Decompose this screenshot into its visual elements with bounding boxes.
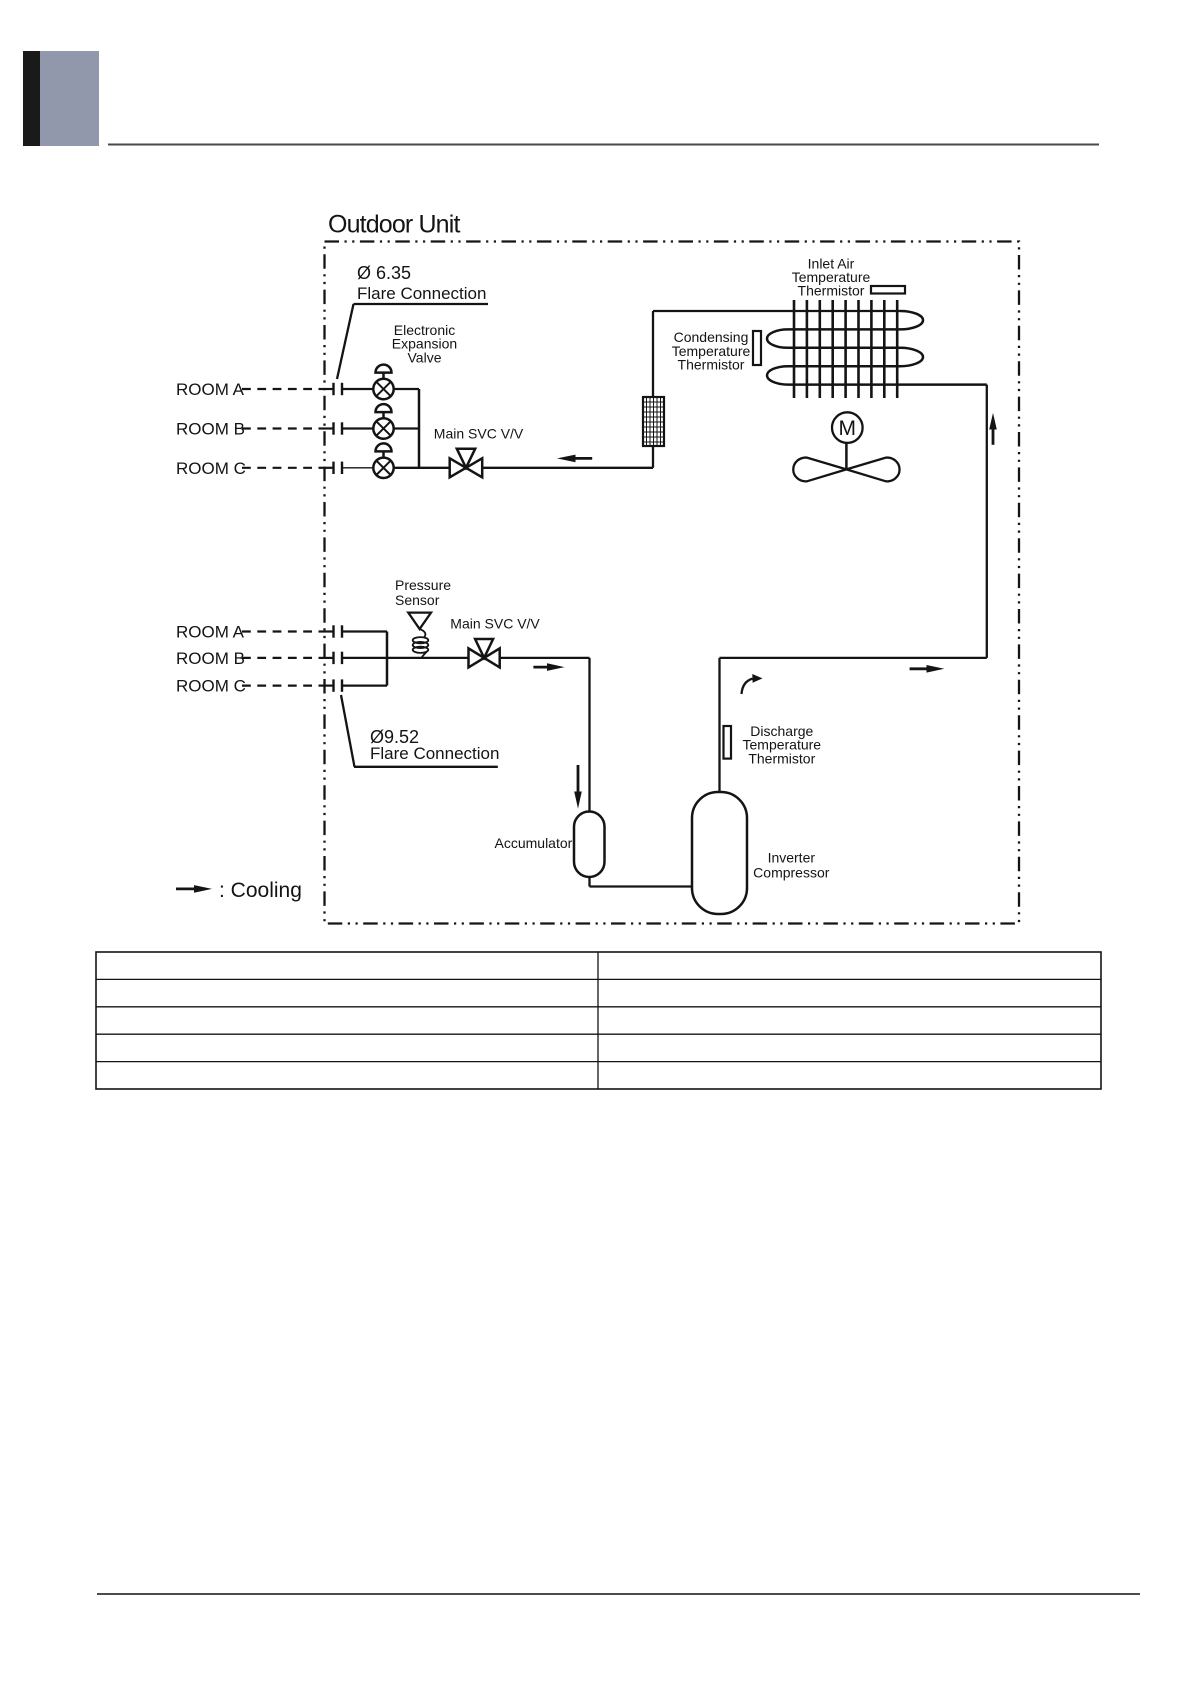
svg-text:ROOM B: ROOM B [176, 420, 245, 439]
svg-text:M: M [839, 417, 857, 440]
svg-text:Outdoor Unit: Outdoor Unit [328, 210, 460, 238]
svg-text:Sensor: Sensor [395, 592, 440, 608]
svg-text:ROOM A: ROOM A [176, 623, 245, 642]
svg-text:Flare Connection: Flare Connection [370, 744, 499, 763]
svg-text:Inverter: Inverter [768, 849, 816, 865]
svg-text:Compressor: Compressor [753, 864, 830, 880]
svg-text:Main SVC V/V: Main SVC V/V [450, 615, 540, 631]
svg-text:Accumulator: Accumulator [495, 835, 573, 851]
svg-text:ROOM C: ROOM C [176, 459, 246, 478]
svg-text:Flare Connection: Flare Connection [357, 284, 486, 303]
svg-text:Thermistor: Thermistor [798, 283, 865, 299]
svg-text:Pressure: Pressure [395, 577, 451, 593]
svg-text:ROOM A: ROOM A [176, 380, 245, 399]
svg-text:Thermistor: Thermistor [748, 750, 815, 766]
svg-text:: Cooling: : Cooling [219, 879, 302, 902]
svg-text:ROOM C: ROOM C [176, 677, 246, 696]
svg-text:Main SVC V/V: Main SVC V/V [434, 426, 524, 442]
svg-text:Thermistor: Thermistor [678, 357, 745, 373]
svg-text:ROOM B: ROOM B [176, 649, 245, 668]
svg-text:Valve: Valve [408, 350, 442, 366]
svg-text:Ø 6.35: Ø 6.35 [357, 263, 411, 283]
